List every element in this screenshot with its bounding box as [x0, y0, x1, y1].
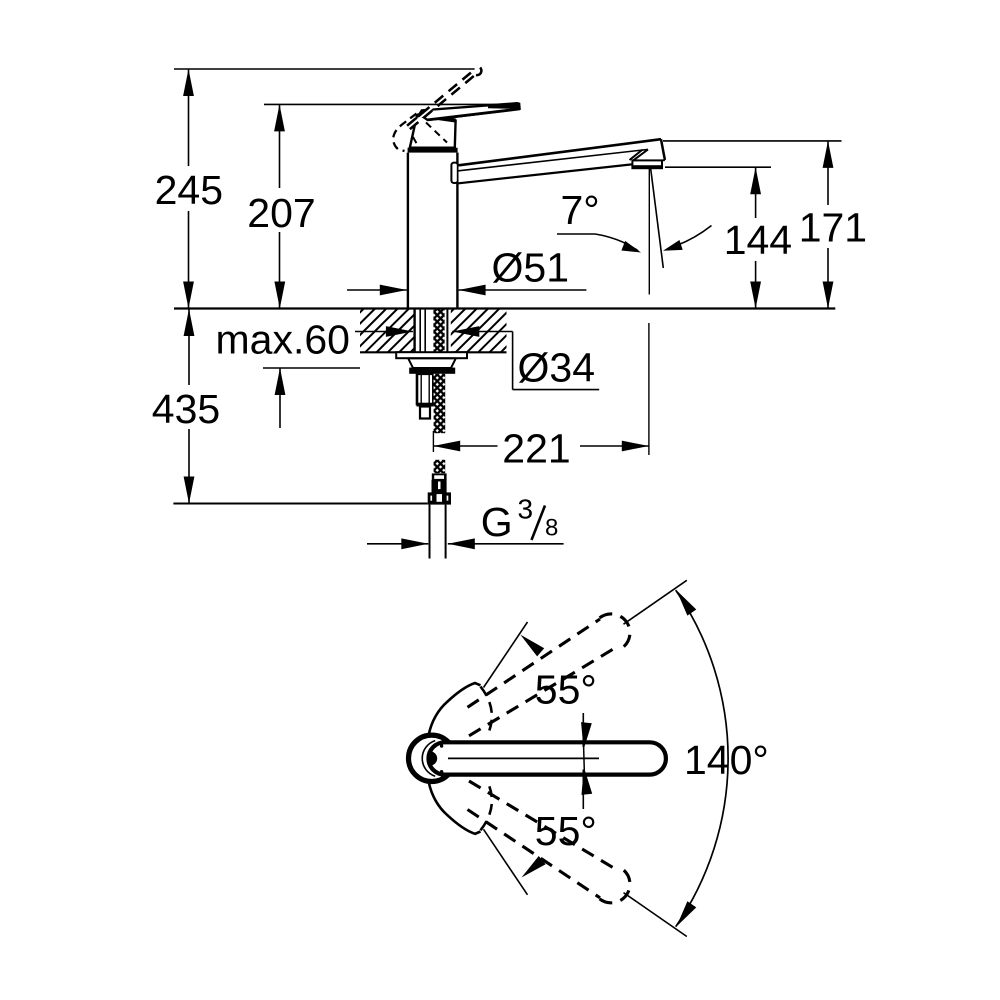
- svg-text:3: 3: [518, 494, 534, 525]
- svg-text:55°: 55°: [535, 808, 597, 854]
- svg-text:55°: 55°: [535, 667, 597, 713]
- svg-text:221: 221: [502, 425, 570, 471]
- svg-text:140°: 140°: [684, 737, 769, 783]
- svg-text:7°: 7°: [561, 187, 600, 233]
- svg-text:245: 245: [155, 167, 223, 213]
- svg-text:144: 144: [724, 217, 792, 263]
- svg-text:171: 171: [799, 204, 867, 250]
- svg-text:435: 435: [152, 386, 220, 432]
- svg-text:max.60: max.60: [216, 317, 350, 363]
- svg-text:G: G: [481, 499, 513, 545]
- svg-text:Ø34: Ø34: [518, 344, 596, 390]
- svg-text:Ø51: Ø51: [492, 244, 570, 290]
- svg-text:8: 8: [545, 515, 558, 542]
- svg-text:207: 207: [247, 190, 315, 236]
